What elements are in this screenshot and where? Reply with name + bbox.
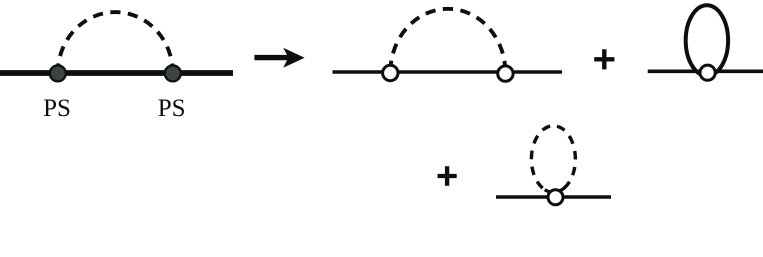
- bottom diagram: vertex (open circle): [548, 190, 563, 205]
- left diagram: dashed pion propagator arc: [58, 12, 173, 73]
- right diagram: nucleon line: [648, 70, 763, 74]
- right diagram: solid tadpole loop (ellipse): [686, 5, 728, 76]
- svg-text:PS: PS: [158, 95, 186, 122]
- bottom diagram: loop dash tick lower-right: [557, 188, 564, 192]
- svg-text:PS: PS: [43, 95, 71, 122]
- arrow (implies expansion): [254, 48, 304, 68]
- middle diagram: nucleon line (thin): [333, 70, 563, 74]
- right diagram: vertex (open circle): [700, 65, 715, 80]
- left diagram: PS vertex right (filled circle): [165, 65, 181, 81]
- middle diagram: vertex right (open circle): [498, 66, 513, 81]
- middle diagram: vertex left (open circle): [383, 65, 398, 80]
- bottom diagram: loop dash tick lower-left: [545, 190, 552, 193]
- plus sign (top row): [594, 49, 614, 69]
- bottom diagram: dashed pion tadpole loop (ellipse): [531, 126, 575, 193]
- bottom diagram: nucleon line: [496, 195, 611, 199]
- left diagram: nucleon line (thick): [0, 70, 233, 76]
- plus sign (bottom row): [438, 166, 457, 186]
- left diagram: PS vertex left (filled circle): [50, 65, 66, 81]
- middle diagram: dashed pion propagator arc: [390, 9, 505, 73]
